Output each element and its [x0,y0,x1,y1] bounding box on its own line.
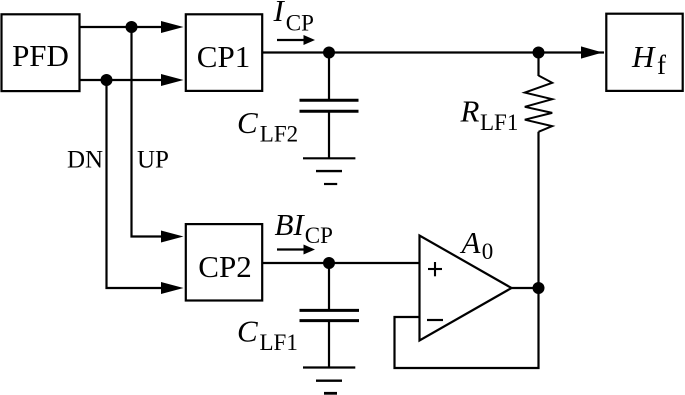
capacitor C_LF1 [300,310,360,320]
arrowhead into CP1 upper [161,21,184,33]
op-amp A0 [420,236,512,341]
node op-amp output junction [533,282,545,294]
node CP2 output junction [323,257,335,269]
wire PFD UP output to CP1 [79,26,162,28]
svg-text:CP1: CP1 [197,39,250,74]
node UP junction [126,21,138,33]
node DN junction [101,74,113,86]
wire CLF1 lead top [328,263,330,311]
arrowhead into Hf [581,46,603,58]
arrow I_CP current direction [277,35,315,45]
wire CLF1 lead bottom [328,322,330,368]
arrow BI_CP current direction [277,245,315,255]
svg-text:H: H [631,39,656,74]
resistor R_LF1 [525,76,552,132]
box PFD [2,14,80,91]
svg-text:C: C [237,314,258,349]
op-amp minus input symbol [427,319,443,321]
svg-text:PFD: PFD [12,38,69,73]
wire CLF2 lead bottom [328,112,330,158]
svg-text:R: R [460,94,480,129]
svg-text:BI: BI [275,207,306,242]
wire op-amp output [512,287,539,289]
svg-text:LF2: LF2 [260,122,298,147]
wire RLF1 top lead [537,53,539,77]
arrowhead into CP1 lower [161,74,184,86]
wire CP2 output to op-amp plus input [263,262,420,264]
wire feedback minus input [395,288,539,368]
svg-text:CP2: CP2 [198,249,251,284]
box Hf [606,14,682,91]
wire CP1 output to Hf [263,51,604,53]
wire UP vertical [132,27,163,237]
wire CLF2 lead top [328,53,330,101]
svg-text:0: 0 [482,239,494,264]
svg-text:A: A [460,225,482,260]
svg-text:C: C [237,105,258,140]
svg-text:LF1: LF1 [260,330,298,355]
svg-text:f: f [657,50,666,80]
node RLF1 top junction [533,47,545,59]
wire RLF1 bottom lead to op-amp output node [537,132,539,288]
svg-text:LF1: LF1 [480,110,518,135]
wire PFD DN output to CP1 [79,79,162,81]
svg-text:I: I [273,0,286,28]
arrowhead into CP2 lower [161,282,184,294]
node CP1 output junction [323,47,335,59]
svg-text:CP: CP [305,223,333,248]
op-amp plus input symbol [428,262,442,276]
ground for C_LF1 [303,368,355,394]
ground for C_LF2 [303,158,355,184]
svg-text:DN: DN [67,147,103,174]
box CP1 [186,14,262,91]
arrowhead into CP2 upper [161,231,184,243]
svg-text:CP: CP [286,10,314,35]
box CP2 [186,224,262,300]
wire DN vertical [107,80,163,288]
capacitor C_LF2 [300,100,359,111]
svg-text:UP: UP [137,147,169,174]
